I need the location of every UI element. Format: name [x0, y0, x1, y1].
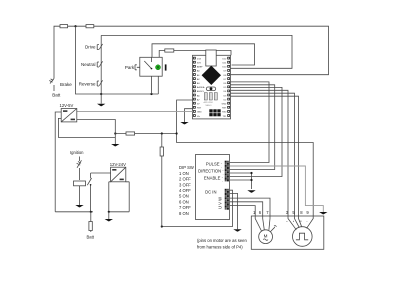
- svg-text:RST: RST: [197, 108, 202, 110]
- svg-text:5 ON: 5 ON: [179, 194, 189, 199]
- svg-text:Park: Park: [125, 65, 135, 70]
- svg-text:2 OFF: 2 OFF: [179, 177, 191, 182]
- svg-text:GND: GND: [222, 104, 227, 106]
- svg-text:DIP SW: DIP SW: [179, 165, 194, 170]
- svg-text:ENABLE: ENABLE: [204, 175, 221, 180]
- svg-text:DIRECTION: DIRECTION: [198, 168, 221, 173]
- svg-text:12V-24V: 12V-24V: [110, 162, 126, 167]
- svg-text:Ignition: Ignition: [70, 150, 84, 155]
- svg-text:Batt: Batt: [52, 93, 61, 98]
- svg-text:1 ON: 1 ON: [179, 171, 189, 176]
- svg-text:Drive: Drive: [85, 45, 96, 50]
- svg-text:6 ON: 6 ON: [179, 199, 189, 204]
- svg-text:A5/SCL: A5/SCL: [197, 90, 205, 93]
- svg-text:3 OFF: 3 OFF: [179, 182, 191, 187]
- svg-text:AREF: AREF: [197, 66, 203, 69]
- svg-text:Batt: Batt: [87, 235, 95, 240]
- svg-text:Reverse: Reverse: [79, 81, 96, 86]
- svg-text:A4/SDA: A4/SDA: [197, 86, 205, 89]
- svg-text:8 ON: 8 ON: [179, 211, 189, 216]
- svg-text:from harness side of P4): from harness side of P4): [197, 244, 243, 249]
- svg-text:Neutral: Neutral: [81, 62, 96, 67]
- svg-text:U V W: U V W: [218, 197, 223, 209]
- svg-text:7 OFF: 7 OFF: [179, 205, 191, 210]
- svg-text:PULSE: PULSE: [206, 162, 220, 167]
- svg-text:12V-5V: 12V-5V: [60, 103, 74, 108]
- svg-text:DC IN: DC IN: [205, 189, 216, 194]
- svg-text:Brake: Brake: [60, 82, 72, 87]
- svg-text:GND: GND: [197, 112, 202, 114]
- svg-text:4 OFF: 4 OFF: [179, 188, 191, 193]
- svg-text:ARDUINO: ARDUINO: [204, 101, 214, 104]
- svg-text:RST: RST: [222, 108, 227, 110]
- svg-text:NANO: NANO: [206, 104, 212, 107]
- svg-text:M: M: [264, 233, 268, 238]
- svg-text:(pins on motor are as seen: (pins on motor are as seen: [197, 238, 247, 243]
